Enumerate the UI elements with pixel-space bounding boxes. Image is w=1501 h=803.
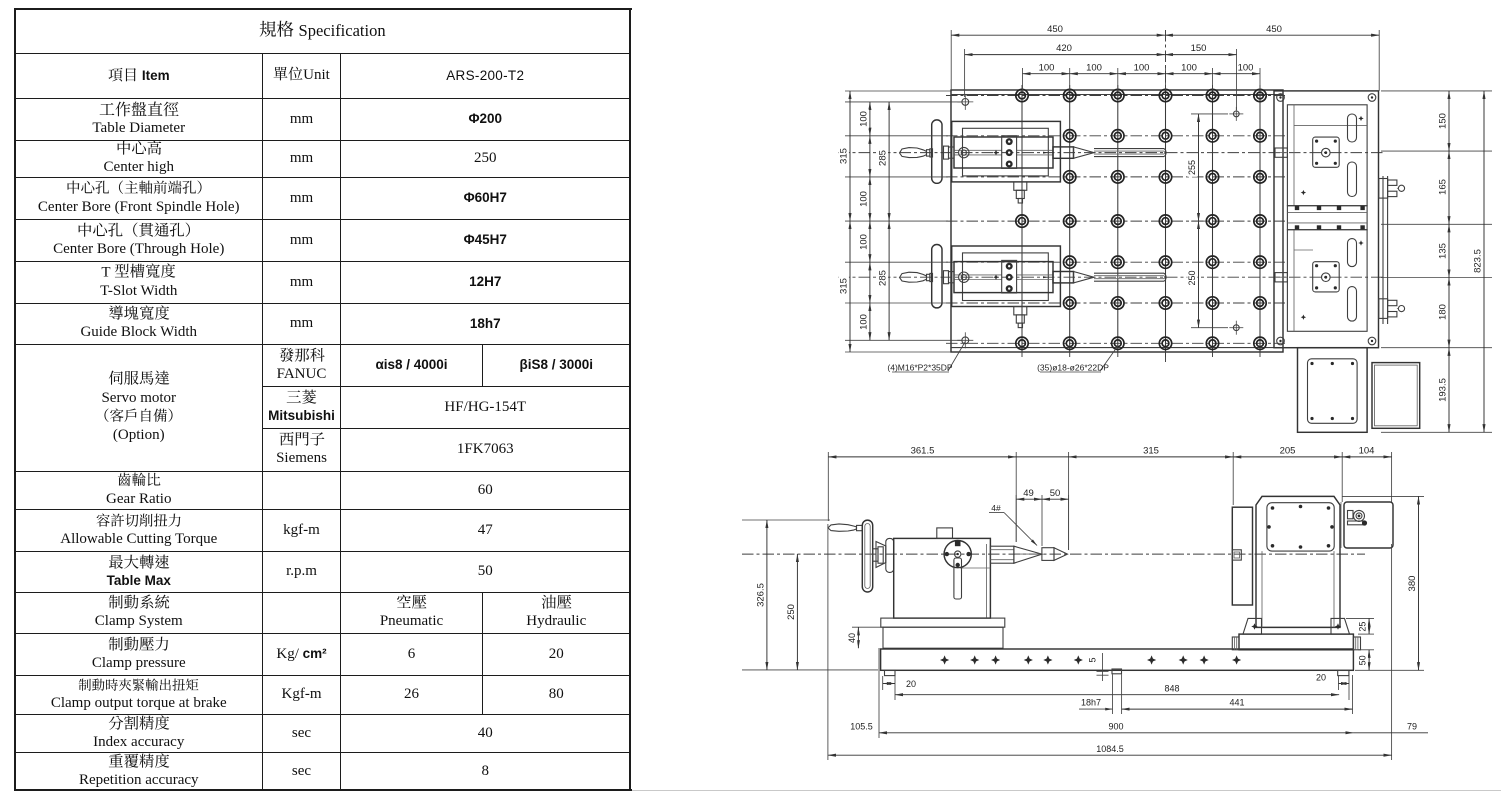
tailstock unit: section arrows bbox=[1043, 152, 1048, 154]
dim 20 left bottom bbox=[882, 676, 884, 690]
dim 100 series left bbox=[869, 102, 871, 136]
plan: hole row centerlines bbox=[946, 95, 1285, 97]
front: taper cone bbox=[876, 542, 886, 568]
gear box slot capsules bbox=[1348, 114, 1357, 142]
front: mount plate bbox=[1239, 634, 1353, 650]
svg-text:100: 100 bbox=[858, 234, 869, 250]
svg-text:250: 250 bbox=[1187, 270, 1197, 285]
front: quill bbox=[990, 546, 1014, 563]
plan: two tailstock units bbox=[900, 120, 1167, 203]
dim chain top 361.5/315/205/104 bbox=[827, 452, 829, 521]
plan: motor box beside gearbox bbox=[1372, 363, 1420, 429]
svg-text:315: 315 bbox=[839, 278, 850, 294]
tailstock unit: center diamond mark bbox=[993, 274, 999, 280]
svg-text:(4)M16*P2*35DP: (4)M16*P2*35DP bbox=[887, 363, 953, 373]
front: tailstock body bbox=[894, 538, 991, 618]
plan view: T-slot plate bbox=[951, 90, 1283, 352]
front: grease fitting bbox=[1348, 511, 1354, 519]
dim 315 x2 left bbox=[849, 91, 851, 221]
svg-text:79: 79 bbox=[1407, 722, 1417, 732]
svg-text:361.5: 361.5 bbox=[911, 445, 935, 456]
gear box diamond marks bbox=[1358, 116, 1363, 121]
gear box slot capsules bbox=[1348, 239, 1357, 267]
dim 326.5 left bbox=[742, 519, 830, 521]
plan: unit axis centerlines bbox=[838, 152, 1383, 154]
front: collar bbox=[886, 538, 894, 572]
plan: grid of T-slot bolt holes (35)#18-#26*22DP bbox=[1016, 89, 1028, 101]
plan: gear box cover plates with bolts bbox=[1275, 114, 1364, 197]
front view: spindle centerline bbox=[742, 553, 1365, 555]
tailstock unit: bottom clamp tabs bbox=[1014, 307, 1027, 315]
svg-text:100: 100 bbox=[1134, 62, 1150, 73]
plan: hole column centerlines bbox=[1021, 85, 1023, 90]
front: handwheel hub bbox=[873, 549, 878, 561]
svg-text:450: 450 bbox=[1266, 24, 1282, 35]
front: guide key 18h7 bbox=[1112, 669, 1122, 674]
plan: alignment cross marks bbox=[1233, 111, 1239, 117]
svg-text:315: 315 bbox=[839, 148, 850, 164]
plan: drive housing outer box bbox=[1274, 91, 1379, 348]
svg-text:250: 250 bbox=[786, 604, 797, 620]
svg-text:100: 100 bbox=[858, 191, 869, 207]
front: feet bbox=[885, 670, 896, 675]
dim 848 bbox=[895, 694, 1339, 696]
dim chain right side 150/165/135/180/193.5 bbox=[1381, 90, 1492, 92]
front: motor flange plate bbox=[1232, 507, 1252, 605]
tailstock unit: base plate outline bbox=[952, 246, 1061, 307]
svg-text:165: 165 bbox=[1438, 179, 1449, 195]
svg-text:49: 49 bbox=[1023, 488, 1034, 499]
svg-text:285: 285 bbox=[878, 150, 889, 166]
front: rotary table main body bbox=[1256, 496, 1340, 627]
svg-text:(35)ø18-ø26*22DP: (35)ø18-ø26*22DP bbox=[1037, 363, 1109, 373]
svg-text:18h7: 18h7 bbox=[1081, 698, 1101, 708]
dim 5 key height bbox=[1088, 656, 1098, 664]
svg-text:150: 150 bbox=[1438, 113, 1449, 129]
tailstock unit: spindle nose circles bbox=[959, 272, 969, 282]
dim 40 left bbox=[852, 626, 884, 628]
dim 441 and 18h7 bbox=[1112, 674, 1114, 714]
dim 450 + 450 top bbox=[950, 30, 952, 90]
dim 900 / 105.5 / 79 bbox=[878, 648, 880, 738]
dim 420 and 150 bbox=[964, 49, 966, 97]
dim 250 left bbox=[796, 554, 798, 670]
svg-text:441: 441 bbox=[1229, 698, 1244, 708]
gear box diamond marks bbox=[1358, 240, 1363, 245]
tailstock unit: base plate outline bbox=[952, 121, 1061, 181]
plan: pipe valve fittings bbox=[1379, 179, 1388, 199]
plan: hole spec labels with leaders bbox=[948, 342, 965, 372]
tailstock unit: bottom clamp tabs bbox=[1014, 182, 1027, 190]
plan: main vertical centerline bbox=[1165, 30, 1167, 90]
svg-text:4#: 4# bbox=[991, 503, 1001, 513]
tailstock unit: section arrows bbox=[1043, 276, 1048, 278]
front: handwheel bbox=[862, 520, 872, 592]
dim 49 / 50 bbox=[1015, 495, 1017, 542]
tailstock unit: bolt block with three bolts bbox=[1002, 136, 1017, 169]
dim 100 series top bbox=[1022, 68, 1024, 90]
plan: pneumatic pipe line bbox=[1382, 176, 1384, 324]
svg-text:100: 100 bbox=[858, 314, 869, 330]
tailstock unit: spindle housing bbox=[954, 137, 1053, 168]
tailstock unit: handwheel bbox=[932, 120, 942, 183]
plan: lower gear box bbox=[1287, 230, 1367, 332]
tailstock unit: center diamond mark bbox=[993, 150, 999, 156]
tailstock unit: bolt block with three bolts bbox=[1002, 260, 1017, 293]
svg-text:1084.5: 1084.5 bbox=[1096, 744, 1124, 754]
svg-text:823.5: 823.5 bbox=[1473, 249, 1484, 273]
front: body cover plate bbox=[1267, 503, 1334, 551]
svg-text:193.5: 193.5 bbox=[1438, 378, 1449, 402]
svg-text:50: 50 bbox=[1050, 488, 1061, 499]
svg-text:205: 205 bbox=[1280, 445, 1296, 456]
svg-text:105.5: 105.5 bbox=[850, 722, 873, 732]
svg-text:25: 25 bbox=[1358, 622, 1368, 632]
plan: housing corner bolts bbox=[1277, 94, 1285, 102]
tailstock unit: handle grip bbox=[900, 272, 927, 282]
dim 285 x2 left bbox=[888, 102, 890, 221]
tailstock unit: spindle nose circles bbox=[959, 147, 969, 157]
svg-text:150: 150 bbox=[1191, 43, 1207, 54]
svg-text:104: 104 bbox=[1359, 445, 1375, 456]
page bottom scan line bbox=[632, 790, 1501, 791]
front: clamp lever bbox=[954, 558, 962, 599]
dim 1084.5 overall bbox=[828, 754, 1392, 756]
tailstock unit: spindle housing bbox=[954, 262, 1053, 293]
front: clamp handwheel circle bbox=[944, 541, 971, 568]
svg-text:420: 420 bbox=[1056, 43, 1072, 54]
dim 380 right bbox=[1342, 495, 1424, 497]
front: handle grip bbox=[828, 524, 857, 531]
tailstock unit: handle grip bbox=[900, 148, 927, 158]
svg-text:20: 20 bbox=[1316, 673, 1326, 683]
front: machine bed bbox=[881, 649, 1354, 670]
tailstock unit: handwheel bbox=[932, 245, 942, 308]
plan: lower gearbox housing bbox=[1298, 348, 1368, 433]
svg-text:40: 40 bbox=[847, 633, 857, 643]
tailstock unit: quill and clamp bar shaft bbox=[1053, 147, 1074, 158]
front: dead center bbox=[1042, 548, 1054, 561]
svg-text:315: 315 bbox=[1143, 445, 1159, 456]
svg-text:100: 100 bbox=[1039, 62, 1055, 73]
dim 823.5 overall right bbox=[1483, 91, 1485, 432]
dim 315/100/285 left side extension lines bbox=[845, 90, 951, 92]
dim 25 right bbox=[1346, 617, 1374, 619]
svg-text:180: 180 bbox=[1438, 304, 1449, 320]
svg-text:285: 285 bbox=[878, 270, 889, 286]
gear box input shaft stub bbox=[1275, 273, 1287, 282]
svg-text:450: 450 bbox=[1047, 24, 1063, 35]
svg-text:20: 20 bbox=[906, 679, 916, 689]
gear box input shaft stub bbox=[1275, 148, 1287, 157]
svg-text:100: 100 bbox=[1086, 62, 1102, 73]
svg-text:100: 100 bbox=[1238, 62, 1254, 73]
dim 50 right bbox=[1358, 649, 1374, 651]
svg-text:380: 380 bbox=[1407, 576, 1418, 592]
svg-text:50: 50 bbox=[1358, 655, 1368, 665]
svg-text:900: 900 bbox=[1108, 722, 1123, 732]
front: clamp feet blocks bbox=[1243, 618, 1262, 634]
svg-text:100: 100 bbox=[1181, 62, 1197, 73]
svg-text:100: 100 bbox=[858, 111, 869, 127]
plan: corner tapped holes (4)M16*P2*35DP bbox=[962, 99, 969, 106]
svg-text:255: 255 bbox=[1187, 160, 1197, 175]
plan: connector plate between boxes bbox=[1287, 206, 1367, 230]
front: bed reference diamonds bbox=[940, 655, 949, 664]
dim 255 and 250 inner vertical bbox=[1198, 114, 1200, 221]
front: motor box right bbox=[1344, 502, 1393, 548]
front: quill taper cone bbox=[1014, 546, 1042, 563]
plan: upper gear box bbox=[1287, 105, 1367, 206]
svg-text:326.5: 326.5 bbox=[755, 583, 766, 607]
tailstock unit: quill and clamp bar shaft bbox=[1053, 272, 1074, 283]
svg-text:5: 5 bbox=[1088, 657, 1098, 662]
front: tailstock pedestal bbox=[881, 618, 1005, 627]
dim 20 right bottom bbox=[1338, 676, 1340, 690]
svg-text:848: 848 bbox=[1164, 684, 1179, 694]
specification table bbox=[0, 0, 1501, 1]
svg-text:135: 135 bbox=[1438, 243, 1449, 259]
